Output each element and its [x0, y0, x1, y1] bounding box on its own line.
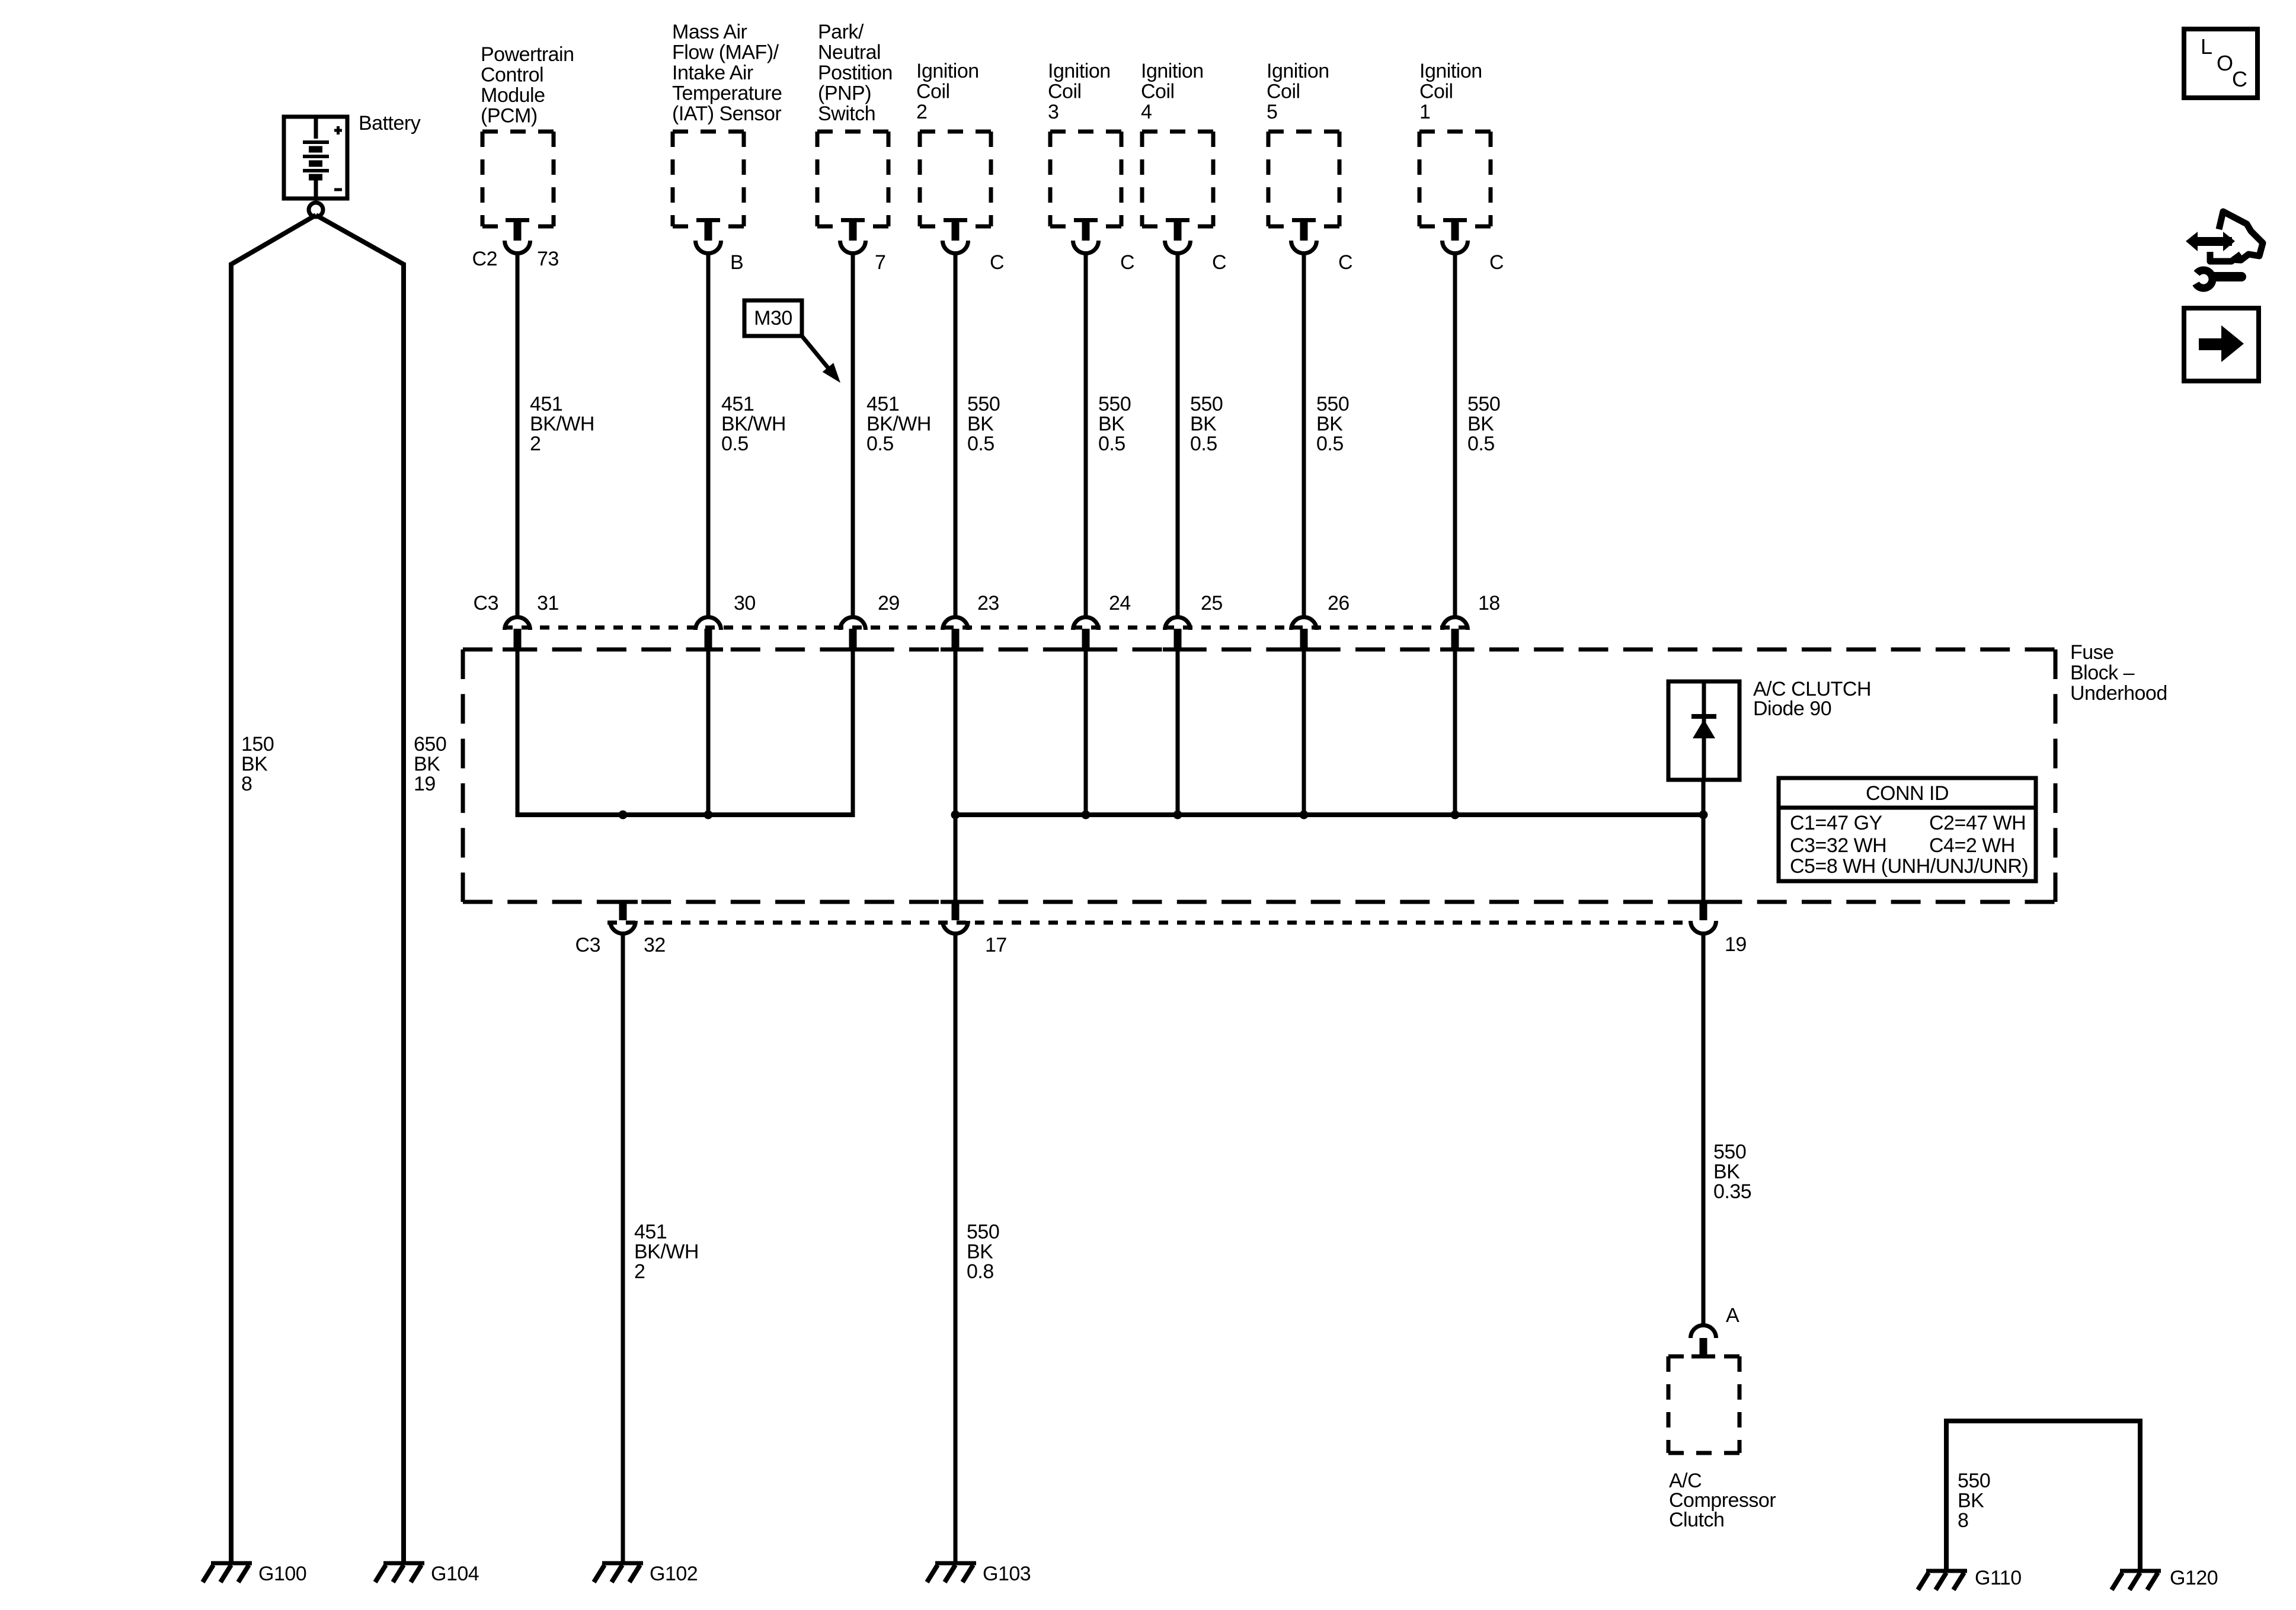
PCM connector C2 pin 73	[506, 218, 529, 222]
wire 550 BK from coil 3	[1084, 252, 1088, 616]
ignition coil 4 connector pin C	[1166, 218, 1189, 222]
svg-text:Intake Air: Intake Air	[672, 62, 753, 84]
svg-text:0.5: 0.5	[967, 433, 994, 455]
svg-text:L: L	[2201, 34, 2212, 59]
svg-text:G102: G102	[650, 1563, 698, 1585]
PNP connector pin 7	[841, 218, 865, 222]
svg-text:BK/WH: BK/WH	[634, 1241, 699, 1263]
ground G110	[1926, 1569, 1967, 1573]
svg-text:550: 550	[1467, 393, 1500, 415]
wire 550 BK from coil 1	[1453, 252, 1457, 616]
battery minus sign	[334, 188, 342, 191]
wire inside fuse block x=1195	[706, 650, 711, 815]
wire 550 BK 8 loop G110-G120	[1946, 1421, 2140, 1570]
svg-text:Block –: Block –	[2070, 662, 2135, 684]
wire 550 BK 0.35 to A/C compressor	[1702, 933, 1706, 1324]
svg-text:C: C	[990, 251, 1004, 274]
svg-text:32: 32	[644, 934, 666, 956]
svg-text:29: 29	[878, 592, 900, 614]
junction dot (MAF wire)	[704, 811, 713, 820]
svg-text:17: 17	[985, 934, 1007, 956]
svg-text:Diode 90: Diode 90	[1753, 697, 1831, 720]
CONN ID header separator	[1779, 806, 2036, 810]
diode symbol	[1691, 714, 1716, 719]
junction dot at x=1987	[1173, 811, 1182, 820]
svg-text:A: A	[1726, 1304, 1739, 1327]
wire inside fuse block x=1987	[1176, 650, 1180, 815]
svg-text:CONN ID: CONN ID	[1866, 782, 1949, 805]
svg-text:Coil: Coil	[1419, 81, 1453, 103]
connector C3 terminal 23	[943, 617, 968, 630]
svg-text:BK: BK	[1958, 1490, 1984, 1512]
junction dot (wire to C3-32)	[619, 811, 628, 820]
svg-text:8: 8	[241, 773, 252, 795]
svg-text:BK: BK	[241, 753, 268, 776]
svg-text:M30: M30	[754, 307, 792, 329]
svg-text:C3: C3	[474, 592, 498, 614]
connector C3 terminal 26	[1291, 617, 1317, 630]
svg-text:Fuse: Fuse	[2070, 641, 2114, 664]
wire 550 BK from coil 2	[954, 252, 958, 616]
wire 550 BK to G103	[954, 933, 958, 1563]
svg-text:Coil: Coil	[1141, 81, 1175, 103]
connector C3 dotted line (top row)	[503, 626, 1471, 630]
svg-text:Flow (MAF)/: Flow (MAF)/	[672, 41, 779, 64]
MAF connector pin B	[696, 218, 720, 222]
vehicle icon jaw line	[2210, 252, 2241, 261]
wire 451 BK/WH from PCM	[516, 252, 520, 616]
svg-text:24: 24	[1109, 592, 1131, 614]
ignition coil 2 connector pin C	[944, 218, 967, 222]
svg-text:Ignition: Ignition	[916, 60, 979, 82]
junction dot at x=2874	[1699, 811, 1708, 820]
wire diode to bus	[1702, 780, 1706, 902]
svg-text:19: 19	[1725, 933, 1747, 956]
svg-text:451: 451	[866, 393, 899, 415]
ignition coil 5 connector pin C	[1292, 218, 1316, 222]
svg-text:Coil: Coil	[1048, 81, 1082, 103]
svg-text:30: 30	[734, 592, 756, 614]
wire 451 BK/WH from MAF	[706, 252, 711, 616]
svg-text:G100: G100	[258, 1563, 306, 1585]
battery internal plates	[314, 117, 318, 139]
wire inside fuse block x=2455	[1453, 650, 1457, 815]
svg-text:23: 23	[977, 592, 999, 614]
svg-text:451: 451	[634, 1221, 667, 1243]
wire inside fuse block x=1439	[851, 650, 855, 815]
LOC icon box	[2184, 29, 2257, 98]
wire battery to left branch	[231, 215, 316, 264]
svg-text:Postition: Postition	[818, 62, 893, 84]
svg-text:2: 2	[634, 1260, 645, 1283]
svg-text:650: 650	[414, 733, 446, 756]
svg-text:Battery: Battery	[359, 112, 421, 135]
svg-text:C1=47 GY: C1=47 GY	[1790, 812, 1882, 834]
svg-text:B: B	[730, 251, 743, 274]
svg-text:7: 7	[875, 251, 885, 274]
svg-text:C5=8 WH (UNH/UNJ/UNR): C5=8 WH (UNH/UNJ/UNR)	[1790, 855, 2028, 878]
right bus inside fuse block	[954, 812, 1704, 817]
svg-text:550: 550	[967, 393, 1000, 415]
A/C clutch diode 90 box	[1668, 681, 1739, 780]
svg-text:Ignition: Ignition	[1048, 60, 1111, 82]
svg-text:Underhood: Underhood	[2070, 682, 2167, 705]
svg-text:3: 3	[1048, 101, 1059, 123]
diode internal wire	[1702, 683, 1706, 778]
svg-text:451: 451	[530, 393, 562, 415]
vehicle icon double arrow	[2195, 237, 2232, 246]
svg-text:Clutch: Clutch	[1669, 1509, 1724, 1531]
wire 650 BK to G104	[401, 263, 406, 1563]
svg-text:Powertrain: Powertrain	[481, 43, 574, 66]
ignition coil 1 box	[1419, 132, 1491, 226]
wire 451 BK/WH to G102	[621, 933, 625, 1563]
PNP switch box	[817, 132, 888, 226]
connector C3 terminal 32	[608, 900, 638, 904]
svg-text:451: 451	[721, 393, 754, 415]
ground G100	[211, 1561, 252, 1566]
svg-text:BK: BK	[1098, 413, 1125, 436]
svg-text:(IAT) Sensor: (IAT) Sensor	[672, 103, 781, 125]
ignition coil 1 connector pin C	[1443, 218, 1467, 222]
svg-text:C: C	[1338, 251, 1352, 274]
ignition coil 3 box	[1050, 132, 1121, 226]
fuse block terminal 19	[1689, 900, 1718, 904]
svg-text:(PNP): (PNP)	[818, 82, 871, 105]
svg-text:BK: BK	[1713, 1161, 1740, 1183]
connector C3 terminal 24	[1073, 617, 1099, 630]
wire 451 BK/WH from PNP	[851, 252, 855, 616]
wire inside fuse block x=873	[516, 650, 520, 815]
svg-text:73: 73	[537, 248, 559, 270]
vehicle icon outline	[2219, 212, 2263, 260]
svg-text:BK/WH: BK/WH	[530, 413, 594, 436]
ground G104	[383, 1561, 424, 1566]
svg-text:G104: G104	[431, 1563, 479, 1585]
ignition coil 4 box	[1142, 132, 1213, 226]
svg-text:Ignition: Ignition	[1141, 60, 1204, 82]
svg-text:550: 550	[1713, 1141, 1746, 1163]
ground G102	[602, 1561, 643, 1566]
svg-text:Coil: Coil	[916, 81, 950, 103]
svg-text:Mass Air: Mass Air	[672, 21, 747, 43]
svg-text:0.8: 0.8	[967, 1260, 994, 1283]
svg-text:BK: BK	[1190, 413, 1217, 436]
svg-text:BK: BK	[414, 753, 440, 776]
wire inside fuse block x=1832	[1084, 650, 1088, 815]
svg-text:1: 1	[1419, 101, 1430, 123]
fuse block - underhood dashed box	[463, 649, 2055, 902]
svg-text:O: O	[2217, 51, 2233, 75]
svg-text:550: 550	[1958, 1470, 1990, 1492]
battery symbol box	[284, 117, 347, 199]
junction dot at x=1832	[1082, 811, 1091, 820]
connector C3 terminal 25	[1165, 617, 1191, 630]
wire 550 BK from coil 4	[1176, 252, 1180, 616]
M30 arrow	[802, 336, 829, 369]
wire coil2 through fuse block	[954, 650, 958, 902]
connector C3 terminal 29	[840, 617, 866, 630]
ignition coil 5 box	[1268, 132, 1339, 226]
svg-text:BK: BK	[967, 1241, 993, 1263]
svg-text:G120: G120	[2170, 1567, 2218, 1589]
svg-text:Switch: Switch	[818, 103, 875, 125]
svg-text:550: 550	[967, 1221, 999, 1243]
A/C compressor clutch box	[1668, 1356, 1739, 1453]
svg-text:Ignition: Ignition	[1267, 60, 1329, 82]
svg-text:G110: G110	[1975, 1567, 2022, 1589]
svg-text:2: 2	[530, 433, 541, 455]
svg-text:BK: BK	[1316, 413, 1343, 436]
CONN ID table box	[1779, 778, 2036, 881]
ignition coil 2 box	[920, 132, 991, 226]
svg-text:Module: Module	[481, 84, 545, 107]
svg-text:(PCM): (PCM)	[481, 105, 538, 127]
connector A	[1691, 1326, 1716, 1339]
junction dot at x=2200	[1300, 811, 1309, 820]
svg-text:5: 5	[1267, 101, 1277, 123]
svg-text:0.5: 0.5	[721, 433, 749, 455]
ground G103	[935, 1561, 976, 1566]
svg-text:Temperature: Temperature	[672, 82, 782, 105]
svg-text:BK: BK	[1467, 413, 1494, 436]
svg-text:Park/: Park/	[818, 21, 864, 43]
svg-text:550: 550	[1316, 393, 1349, 415]
svg-text:0.5: 0.5	[1098, 433, 1125, 455]
svg-text:25: 25	[1201, 592, 1223, 614]
svg-text:4: 4	[1141, 101, 1152, 123]
svg-text:0.35: 0.35	[1713, 1180, 1751, 1203]
connector C3 terminal 31	[505, 617, 530, 630]
connector C3 terminal 18	[1443, 617, 1468, 630]
M30 harness callout box	[744, 300, 802, 336]
svg-text:C: C	[2232, 67, 2247, 91]
svg-text:26: 26	[1328, 592, 1350, 614]
wrench icon	[2213, 272, 2241, 281]
svg-text:8: 8	[1958, 1509, 1968, 1532]
arrow icon box	[2184, 308, 2259, 381]
svg-text:C: C	[1212, 251, 1226, 274]
svg-text:C3=32 WH: C3=32 WH	[1790, 834, 1886, 857]
svg-text:150: 150	[241, 733, 274, 756]
battery plus sign	[334, 129, 342, 132]
svg-text:Coil: Coil	[1267, 81, 1300, 103]
svg-text:C2: C2	[472, 248, 497, 270]
PCM box (Powertrain Control Module)	[482, 132, 554, 226]
svg-text:0.5: 0.5	[1316, 433, 1344, 455]
svg-text:0.5: 0.5	[866, 433, 894, 455]
left bus inside fuse block	[516, 812, 855, 817]
svg-text:2: 2	[916, 101, 927, 123]
arrow icon	[2199, 338, 2223, 350]
ground G120	[2120, 1569, 2161, 1573]
junction dot at x=2455	[1451, 811, 1460, 820]
connector C3 terminal 17	[941, 900, 970, 904]
connector C3 dotted line (bottom row)	[607, 921, 1690, 925]
svg-text:C4=2 WH: C4=2 WH	[1929, 834, 2015, 857]
connector C3 terminal 30	[696, 617, 721, 630]
svg-text:C: C	[1120, 251, 1134, 274]
ignition coil 3 connector pin C	[1074, 218, 1098, 222]
svg-text:BK/WH: BK/WH	[866, 413, 931, 436]
svg-text:550: 550	[1098, 393, 1131, 415]
svg-text:Ignition: Ignition	[1419, 60, 1482, 82]
svg-text:550: 550	[1190, 393, 1223, 415]
svg-text:Control: Control	[481, 64, 543, 87]
wire battery to right branch	[316, 215, 404, 264]
svg-text:0.5: 0.5	[1190, 433, 1217, 455]
svg-text:19: 19	[414, 773, 436, 795]
wire inside fuse block x=2200	[1302, 650, 1306, 815]
wire 550 BK from coil 5	[1302, 252, 1306, 616]
svg-text:Neutral: Neutral	[818, 41, 881, 64]
svg-text:BK: BK	[967, 413, 994, 436]
battery output node	[309, 203, 323, 217]
wire 150 BK to G100	[229, 263, 234, 1563]
MAF/IAT sensor box	[673, 132, 744, 226]
svg-text:G103: G103	[983, 1563, 1031, 1585]
svg-text:C: C	[1489, 251, 1504, 274]
svg-text:31: 31	[537, 592, 559, 614]
svg-text:C3: C3	[575, 934, 600, 956]
svg-text:18: 18	[1478, 592, 1500, 614]
junction dot at x=1612	[951, 811, 960, 820]
svg-text:0.5: 0.5	[1467, 433, 1495, 455]
svg-text:BK/WH: BK/WH	[721, 413, 786, 436]
svg-text:C2=47 WH: C2=47 WH	[1929, 812, 2026, 834]
